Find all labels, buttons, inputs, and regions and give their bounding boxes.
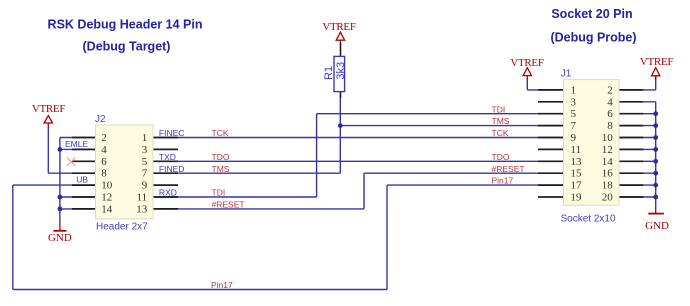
resistor R1 value 3k3 <box>335 62 347 80</box>
svg-text:15: 15 <box>571 168 583 180</box>
J2 pin numbers right column <box>136 132 148 215</box>
J1 pin numbers left column <box>571 84 583 203</box>
svg-text:Header 2x7: Header 2x7 <box>96 222 148 233</box>
svg-text:#RESET: #RESET <box>492 164 525 174</box>
svg-text:9: 9 <box>142 180 148 192</box>
junction J1 pin20 <box>653 195 658 200</box>
svg-text:VTREF: VTREF <box>640 56 674 68</box>
svg-text:FINED: FINED <box>159 164 185 174</box>
net label TCK left <box>212 128 229 138</box>
svg-text:12: 12 <box>602 144 613 156</box>
svg-text:5: 5 <box>142 156 148 168</box>
svg-text:17: 17 <box>571 180 583 192</box>
net label TMS right <box>492 116 510 126</box>
svg-text:TCK: TCK <box>492 128 509 138</box>
wire GND bus left J2 pins 2,4,12,14 <box>60 138 97 223</box>
svg-text:14: 14 <box>101 203 113 215</box>
junction TMS R1 <box>338 123 343 128</box>
connector J2 pins black stubs left <box>72 138 97 209</box>
svg-text:3: 3 <box>571 96 577 108</box>
svg-text:7: 7 <box>571 120 577 132</box>
svg-text:#RESET: #RESET <box>212 200 245 210</box>
net label TDO right <box>492 152 510 162</box>
resistor R1 <box>334 43 345 99</box>
svg-text:18: 18 <box>602 180 614 192</box>
junction J1 pin14 <box>653 159 658 164</box>
net label #RESET left <box>212 200 245 210</box>
power VTREF at J1 left <box>510 57 544 80</box>
svg-text:12: 12 <box>101 192 112 204</box>
svg-text:TDI: TDI <box>492 104 506 114</box>
wire GND bus right J1 even pins <box>618 102 656 206</box>
title (Debug Target) <box>83 40 171 54</box>
svg-text:(Debug Target): (Debug Target) <box>83 40 171 54</box>
net label TDO left <box>212 152 230 162</box>
net label TDI right <box>492 104 506 114</box>
J2 pin numbers left column <box>101 132 113 215</box>
svg-text:VTREF: VTREF <box>32 103 66 115</box>
svg-text:TMS: TMS <box>212 164 230 174</box>
net label RXD <box>159 188 177 198</box>
connector J2 value Header 2x7 <box>96 222 148 233</box>
svg-text:20: 20 <box>602 192 614 204</box>
junction J2 pin14 GND <box>58 207 63 212</box>
svg-text:9: 9 <box>571 132 577 144</box>
wire VTREF to J2.8 <box>48 127 97 173</box>
net label EMLE <box>65 139 88 149</box>
wire TMS J2.7 to J1.7 <box>153 97 564 173</box>
connector J1 pins black stubs left <box>538 90 564 197</box>
svg-text:16: 16 <box>602 168 614 180</box>
svg-text:2: 2 <box>607 84 613 96</box>
junction J2 pin12 GND <box>58 195 63 200</box>
connector J2 pins black stubs right <box>153 138 178 209</box>
svg-text:8: 8 <box>607 120 613 132</box>
net label UB <box>76 174 88 184</box>
svg-text:UB: UB <box>76 174 88 184</box>
svg-text:7: 7 <box>142 168 148 180</box>
connector J2 body <box>96 125 154 219</box>
svg-text:6: 6 <box>607 108 613 120</box>
junction J1 pin10 <box>653 135 658 140</box>
svg-text:10: 10 <box>101 180 113 192</box>
svg-text:J1: J1 <box>561 68 572 79</box>
svg-text:TDO: TDO <box>492 152 510 162</box>
net label Pin17 right <box>492 176 514 186</box>
net label TMS left <box>212 164 230 174</box>
svg-text:TDO: TDO <box>212 152 230 162</box>
junction J1 pin12 <box>653 147 658 152</box>
svg-text:14: 14 <box>602 156 614 168</box>
no-connect X on J2 pin6 <box>67 158 75 166</box>
svg-text:11: 11 <box>571 144 582 156</box>
resistor R1 refdes <box>323 66 335 80</box>
net label Pin17 bottom <box>211 280 233 290</box>
svg-text:J2: J2 <box>95 114 106 125</box>
junction J1 pin6 <box>653 111 658 116</box>
svg-text:Pin17: Pin17 <box>211 280 233 290</box>
net label #RESET right <box>492 164 525 174</box>
connector J1 pins black stubs right <box>618 90 643 197</box>
net label TDI left <box>212 188 226 198</box>
J1 pin numbers right column <box>602 84 614 203</box>
svg-text:3: 3 <box>142 144 148 156</box>
wire VTREF to J1.1 <box>527 78 564 90</box>
wire Pin17 J2.10 to J1.17 <box>13 185 565 289</box>
connector J1 body <box>564 80 620 206</box>
wire VTREF to J1.2 <box>618 76 656 90</box>
svg-text:FINEC: FINEC <box>159 128 185 138</box>
ground GND left <box>48 222 72 244</box>
svg-text:TMS: TMS <box>492 116 510 126</box>
svg-text:EMLE: EMLE <box>65 139 88 149</box>
ground GND right <box>645 206 669 232</box>
title Socket 20 Pin <box>551 7 632 21</box>
connector J2 refdes <box>95 114 106 125</box>
svg-text:4: 4 <box>101 144 107 156</box>
svg-text:(Debug Probe): (Debug Probe) <box>550 30 636 44</box>
svg-text:3k3: 3k3 <box>335 62 347 80</box>
connector J1 refdes <box>561 68 572 79</box>
wire #RESET J2.13 to J1.15 <box>153 173 564 209</box>
svg-text:4: 4 <box>607 96 613 108</box>
svg-text:GND: GND <box>645 220 669 232</box>
net label TCK right <box>492 128 509 138</box>
svg-text:10: 10 <box>602 132 614 144</box>
svg-text:RXD: RXD <box>159 188 177 198</box>
svg-text:TXD: TXD <box>159 152 176 162</box>
svg-text:13: 13 <box>571 156 583 168</box>
svg-text:TDI: TDI <box>212 188 226 198</box>
junction J1 pin18 <box>653 183 658 188</box>
net label FINED <box>159 164 185 174</box>
svg-text:R1: R1 <box>323 66 335 80</box>
svg-text:VTREF: VTREF <box>322 21 356 33</box>
junction J1 pin16 <box>653 171 658 176</box>
svg-text:Pin17: Pin17 <box>492 176 514 186</box>
svg-text:TCK: TCK <box>212 128 229 138</box>
title (Debug Probe) <box>550 30 636 44</box>
svg-text:Socket 20 Pin: Socket 20 Pin <box>551 7 632 21</box>
wire TDI J2.11 to J1.5 <box>153 114 564 197</box>
wire TCK J2.1 to J1.9 <box>153 137 564 139</box>
svg-text:13: 13 <box>136 203 148 215</box>
svg-text:GND: GND <box>48 232 72 244</box>
svg-text:11: 11 <box>137 192 148 204</box>
power VTREF at J1 right <box>640 56 674 80</box>
power VTREF above R1 <box>322 21 356 43</box>
title RSK Debug Header 14 Pin <box>48 18 203 32</box>
svg-text:2: 2 <box>101 132 107 144</box>
junction J1 pin8 <box>653 123 658 128</box>
power VTREF at J2 <box>32 103 66 128</box>
net label TXD <box>159 152 176 162</box>
svg-text:Socket 2x10: Socket 2x10 <box>561 214 616 225</box>
wire TDO J2.5 to J1.13 <box>153 160 564 162</box>
svg-text:5: 5 <box>571 108 577 120</box>
svg-text:RSK Debug Header 14 Pin: RSK Debug Header 14 Pin <box>48 18 203 32</box>
junction J2 pin4 GND <box>58 147 63 152</box>
net label FINEC <box>159 128 185 138</box>
svg-text:1: 1 <box>571 84 577 96</box>
svg-text:8: 8 <box>101 168 107 180</box>
svg-text:6: 6 <box>101 156 107 168</box>
connector J1 value Socket 2x10 <box>561 214 616 225</box>
svg-text:1: 1 <box>142 132 148 144</box>
svg-text:19: 19 <box>571 192 583 204</box>
